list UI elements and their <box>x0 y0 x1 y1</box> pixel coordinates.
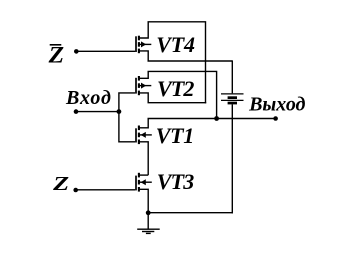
drain stub VT3 <box>139 174 148 176</box>
source wire VT3: stub, down to ground junction <box>139 189 148 213</box>
substrate arrow stub VT1 <box>139 134 152 136</box>
gate wire VT4 from Zbar <box>76 50 135 52</box>
input wire <box>76 111 119 113</box>
battery bottom wire down to ground rail <box>231 104 233 213</box>
gate wire VT1 from input junction <box>119 112 135 142</box>
overbar of Zbar <box>50 44 62 46</box>
battery GB top wire <box>231 60 233 93</box>
channel segments VT1 <box>138 126 140 131</box>
gate plate VT3 <box>135 176 137 191</box>
transistor VT4 (p-channel MOSFET) <box>76 22 232 104</box>
substrate arrow stub VT2 <box>139 85 151 87</box>
transistor VT3 (n-channel MOSFET) <box>76 173 152 213</box>
gate wire VT3 from Z <box>76 189 136 191</box>
svg-text:Выход: Выход <box>248 93 305 115</box>
substrate arrowhead VT2 (points right) <box>141 83 146 89</box>
gate plate VT1 <box>135 128 137 142</box>
substrate arrow stub VT3 <box>139 181 152 183</box>
source wire VT2: stub, down, bottom edge to VT4 drain line <box>139 93 206 103</box>
ground symbol line 2 <box>142 231 154 233</box>
battery long plate 1 <box>221 93 244 95</box>
drain wire VT2: stub, up, top edge, down to output node <box>139 71 217 118</box>
svg-text:VT1: VT1 <box>156 123 195 148</box>
transistor VT2 (p-channel MOSFET) <box>119 71 217 118</box>
substrate arrowhead VT1 (points left) <box>141 132 146 138</box>
ground junction dot <box>146 210 151 215</box>
source wire VT1: stub, down to VT3 drain <box>139 142 148 175</box>
drain wire VT1: stub, up, output line right to output terminal <box>139 119 276 128</box>
transistor VT1 (n-channel MOSFET) <box>119 112 276 176</box>
drain wire VT4: stub, up, top edge, right edge down to VT2 source edge <box>139 22 206 104</box>
substrate arrowhead VT4 (points right) <box>141 41 146 47</box>
terminal dot Z <box>73 188 78 193</box>
svg-text:Z: Z <box>52 173 69 195</box>
terminal dot Zbar <box>74 49 79 54</box>
svg-text:VT3: VT3 <box>157 169 195 194</box>
channel segments VT3 <box>138 173 140 178</box>
ground symbol line 3 <box>146 232 151 234</box>
ground stem <box>147 213 149 229</box>
ground rail wire <box>148 212 233 214</box>
input terminal dot <box>74 109 79 114</box>
svg-text:VT2: VT2 <box>157 76 194 101</box>
svg-text:VT4: VT4 <box>156 32 195 57</box>
output terminal dot <box>273 116 278 121</box>
battery long plate 2 <box>221 99 244 101</box>
input junction dot <box>117 109 122 114</box>
source wire VT4: stub, down, right to battery top <box>139 51 232 61</box>
battery short thick plate 1 <box>228 96 237 99</box>
battery short thick plate 2 <box>228 102 237 105</box>
substrate arrow stub VT4 <box>139 43 151 45</box>
channel segments VT2 <box>138 76 140 81</box>
svg-text:Z: Z <box>47 43 64 68</box>
ground symbol line 1 <box>137 228 160 230</box>
gate plate VT4 <box>135 36 137 52</box>
gate wire VT2 from input junction <box>119 93 135 112</box>
gate plate VT2 <box>135 78 137 94</box>
substrate arrowhead VT3 (points left) <box>141 179 146 185</box>
svg-text:Вход: Вход <box>65 87 111 109</box>
output junction dot <box>214 116 219 121</box>
channel segments VT4 <box>138 36 140 41</box>
